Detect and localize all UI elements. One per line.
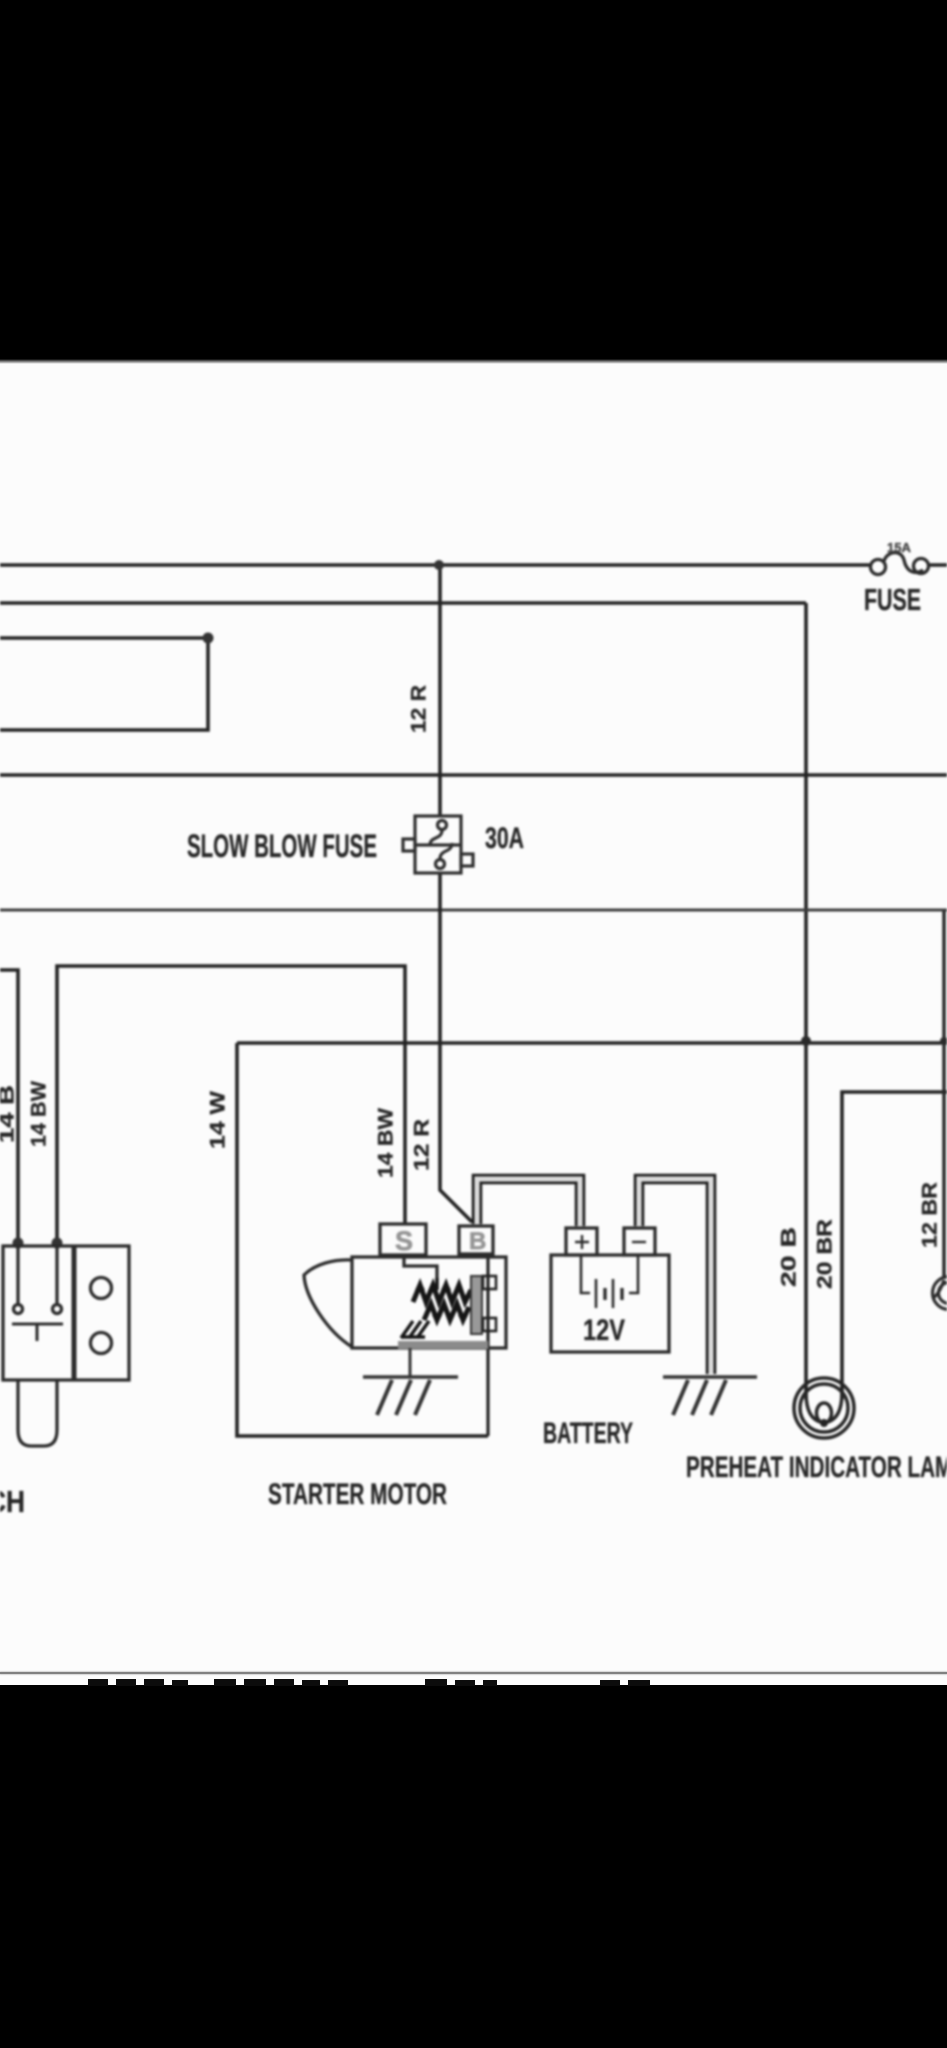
battery - sign [632,1241,646,1243]
wire: second bus y=602 to corner [0,601,806,605]
wire: 12R vertical below slow blow fuse with diagonal into B [440,874,472,1222]
fuse F1 15A symbol [871,553,929,575]
wire: y=563 right of fuse [928,563,947,567]
starter motor M1 [304,1224,506,1348]
svg-text:STARTER MOTOR: STARTER MOTOR [268,1478,447,1511]
svg-text:12V: 12V [583,1314,625,1347]
battery + sign [575,1235,589,1249]
svg-text:14 BW: 14 BW [28,1081,51,1147]
starter motor brush bar [471,1276,482,1334]
preheat indicator lamp L1 [794,1378,854,1438]
wire: vertical 20B net x=806 down to lamp [804,603,808,1399]
svg-text:S: S [395,1226,413,1256]
switch SW1 (starter switch) [3,1246,129,1446]
svg-text:20 B: 20 B [778,1227,801,1287]
svg-text:14 B: 14 B [0,1085,19,1143]
svg-text:20 BR: 20 BR [814,1219,837,1289]
svg-text:CH: CH [0,1484,25,1519]
cut-off text tops above bottom bar [0,1678,947,1686]
svg-text:12 R: 12 R [408,685,431,733]
wire: 12R vertical x=440 top [438,565,442,815]
wire: main bus y=563 left of fuse [0,563,871,567]
junction dot switch lead 1 [13,1238,24,1249]
terminal B box [459,1226,493,1254]
S internal lead [404,1255,437,1278]
bottom letterbox bar [0,1685,947,2048]
svg-text:B: B [469,1228,486,1255]
svg-text:12 R: 12 R [411,1119,434,1171]
starter motor coil winding [413,1278,471,1325]
lamp (partial, right edge) [933,1277,947,1310]
svg-text:14 W: 14 W [207,1091,230,1149]
separator line above bottom bar [0,1672,947,1675]
battery BT1 [551,1228,669,1352]
starter motor nose [304,1260,352,1347]
heavy cable battery - to ground [639,1179,711,1374]
wire: B terminal heavy lead x=488 [486,1254,489,1436]
svg-text:30A: 30A [485,822,524,855]
svg-text:BATTERY: BATTERY [543,1417,633,1450]
slow blow fuse 30A symbol [403,816,473,873]
top letterbox bar [0,0,947,359]
heavy cable B terminal to battery + [477,1179,580,1226]
starter motor internal hatch [401,1321,429,1338]
terminal S box [380,1224,426,1255]
connector loop below switch [18,1380,57,1446]
starter motor brush tab upper [483,1276,496,1331]
wire: switch lead 14BW to S terminal [57,966,405,1246]
svg-text:14 BW: 14 BW [375,1108,398,1178]
svg-text:15A: 15A [887,540,912,555]
junction dot at (806,1041) [801,1036,811,1046]
node: component block top-left [0,638,208,730]
svg-text:FUSE: FUSE [864,582,921,617]
junction dot at (439,563) [434,560,444,570]
wire: bus y=775 [0,773,947,777]
svg-text:SLOW BLOW FUSE: SLOW BLOW FUSE [187,828,377,864]
wire: starter loop x=237 / y=1436 / x=488 [237,1043,488,1436]
battery cell symbol [581,1255,590,1293]
junction dot at (944,1041) [940,1037,947,1045]
ground (starter motor) [363,1348,458,1415]
starter motor base shading [398,1341,488,1349]
wire: switch lead 14B from left edge [0,970,18,1246]
ground (battery) [663,1377,757,1415]
wire: 12BR net x=944 from y=912 bus down to edge lamp [942,911,946,1279]
junction dot at rectangle corner (208,638) [203,633,214,644]
wire: bus y=910 [0,909,947,912]
svg-text:12 BR: 12 BR [919,1182,942,1248]
wire: bus y=1043 from x=237 to right edge [237,1041,947,1045]
battery + terminal box [566,1228,597,1255]
junction dot switch lead 2 [52,1238,63,1249]
svg-text:PREHEAT INDICATOR LAMP: PREHEAT INDICATOR LAMP [686,1451,947,1484]
wire: 20BR net from right edge down to lamp [842,1092,947,1399]
battery - terminal box [624,1228,655,1255]
